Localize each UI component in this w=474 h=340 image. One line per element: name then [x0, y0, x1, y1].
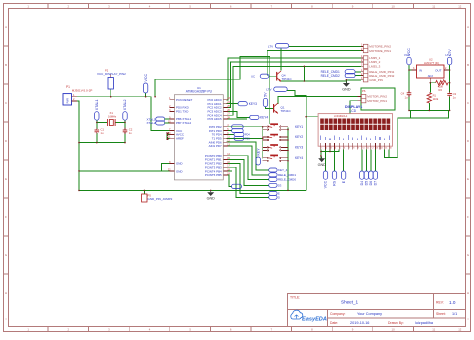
svg-text:B: B [5, 63, 7, 67]
svg-text:G: G [5, 253, 7, 257]
svg-text:D4: D4 [360, 181, 364, 186]
svg-text:10: 10 [392, 328, 396, 332]
svg-text:RELE_CMD0: RELE_CMD0 [278, 178, 296, 182]
svg-text:PCINT5 PB5: PCINT5 PB5 [205, 173, 222, 177]
svg-text:RS: RS [333, 180, 337, 186]
svg-text:P6: P6 [362, 89, 366, 93]
svg-text:GND_PIN_JUMP2: GND_PIN_JUMP2 [148, 197, 173, 201]
svg-text:RELE_CMD1: RELE_CMD1 [278, 173, 296, 177]
svg-text:KEY2: KEY2 [295, 135, 303, 139]
svg-text:5V: 5V [264, 92, 268, 97]
svg-text:XTAL2: XTAL2 [123, 99, 127, 110]
svg-text:LCD1602A-4: LCD1602A-4 [334, 115, 348, 118]
svg-text:IN: IN [419, 69, 422, 73]
svg-text:GND: GND [176, 162, 183, 166]
svg-text:11: 11 [432, 328, 435, 332]
svg-text:ADJ: ADJ [428, 74, 434, 78]
svg-text:10: 10 [392, 4, 396, 8]
svg-text:16: 16 [390, 148, 392, 150]
svg-text:H: H [5, 291, 7, 295]
svg-text:D: D [278, 196, 280, 200]
svg-text:1/1: 1/1 [452, 312, 457, 316]
svg-text:2019-10-16: 2019-10-16 [350, 321, 369, 325]
svg-text:VCC: VCC [404, 53, 411, 57]
svg-text:15: 15 [385, 148, 387, 150]
svg-text:KEY: KEY [256, 148, 260, 156]
svg-text:PB7 XTAL2: PB7 XTAL2 [176, 121, 191, 125]
svg-text:5: 5 [340, 148, 341, 150]
svg-text:XTAL2: XTAL2 [147, 121, 156, 125]
svg-text:KEY_4: KEY_4 [278, 168, 288, 172]
svg-text:TIP41C: TIP41C [281, 109, 292, 113]
svg-text:12: 12 [371, 148, 373, 150]
svg-text:RELE_CMD2: RELE_CMD2 [321, 74, 340, 78]
svg-text:KEY4: KEY4 [295, 156, 303, 160]
svg-text:P1: P1 [66, 85, 70, 89]
svg-text:D5: D5 [365, 181, 369, 186]
svg-text:PD1 TXD: PD1 TXD [176, 110, 188, 114]
svg-text:E: E [5, 177, 7, 181]
svg-text:KEY1: KEY1 [295, 125, 303, 129]
svg-text:3: 3 [331, 148, 332, 150]
svg-text:14: 14 [381, 148, 383, 150]
svg-text:LTV: LTV [445, 53, 450, 57]
svg-text:PD4: PD4 [245, 134, 250, 137]
svg-text:10: 10 [362, 148, 364, 150]
svg-text:6: 6 [344, 148, 345, 150]
svg-text:16MHz: 16MHz [108, 114, 117, 118]
svg-text:GND: GND [207, 197, 216, 201]
svg-text:MOTORE_PIN1: MOTORE_PIN1 [369, 49, 391, 53]
svg-text:Your Company: Your Company [357, 312, 382, 316]
svg-text:REV:: REV: [436, 301, 444, 305]
svg-text:D7: D7 [374, 181, 378, 186]
svg-text:ATMEGA328P-PU: ATMEGA328P-PU [186, 90, 213, 94]
svg-text:110k: 110k [433, 97, 439, 101]
svg-text:VCC: VCC [144, 74, 148, 82]
svg-text:KEY4: KEY4 [260, 116, 268, 120]
svg-text:Date:: Date: [330, 321, 338, 325]
svg-text:LTV: LTV [268, 45, 273, 49]
svg-text:8: 8 [353, 148, 354, 150]
svg-text:PC5 ADC5: PC5 ADC5 [207, 117, 222, 121]
svg-text:4: 4 [335, 148, 336, 150]
svg-text:13: 13 [376, 148, 378, 150]
svg-text:VCC_DISPLAY_PIN2: VCC_DISPLAY_PIN2 [97, 72, 126, 76]
svg-text:Drawn By:: Drawn By: [388, 321, 404, 325]
svg-text:PWR: PWR [67, 98, 70, 104]
svg-text:A: A [5, 25, 7, 29]
svg-text:XTAL1: XTAL1 [95, 99, 99, 110]
svg-text:1u: 1u [453, 96, 456, 100]
svg-text:1.0: 1.0 [449, 300, 456, 305]
svg-text:F: F [5, 215, 7, 219]
svg-text:A: A [467, 25, 469, 29]
svg-text:luizpadilha: luizpadilha [415, 321, 434, 325]
svg-text:C: C [467, 101, 469, 105]
svg-text:R1: R1 [433, 94, 437, 98]
svg-text:GND_PIN: GND_PIN [369, 78, 383, 82]
svg-text:Sheet_1: Sheet_1 [341, 300, 359, 305]
svg-text:GND: GND [318, 163, 327, 167]
svg-text:2: 2 [326, 148, 327, 150]
svg-text:TITLE:: TITLE: [290, 296, 300, 300]
svg-text:VCC: VCC [324, 180, 328, 188]
svg-text:KEY3: KEY3 [249, 102, 257, 106]
svg-text:G: G [467, 253, 469, 257]
svg-text:D6: D6 [369, 181, 373, 186]
svg-text:LTV: LTV [266, 88, 271, 92]
svg-text:D: D [5, 139, 7, 143]
svg-text:12: 12 [458, 4, 462, 8]
svg-text:PC6 RESET: PC6 RESET [176, 98, 193, 102]
svg-text:Sheet:: Sheet: [436, 312, 446, 316]
svg-text:B: B [467, 63, 469, 67]
svg-text:TIP41C: TIP41C [282, 77, 293, 81]
svg-text:KEY3: KEY3 [295, 146, 303, 150]
svg-text:MJ301V-5.0-2P: MJ301V-5.0-2P [72, 88, 93, 92]
svg-text:Company:: Company: [330, 312, 346, 316]
svg-text:D: D [467, 139, 469, 143]
svg-text:9: 9 [358, 148, 359, 150]
svg-text:LCD: LCD [350, 109, 357, 113]
svg-text:C4: C4 [401, 92, 405, 96]
svg-text:E: E [467, 177, 469, 181]
svg-text:1: 1 [321, 148, 322, 150]
svg-text:LM317T (D): LM317T (D) [424, 61, 439, 65]
svg-text:11: 11 [432, 4, 435, 8]
svg-text:1u: 1u [405, 96, 408, 100]
svg-text:12: 12 [458, 328, 462, 332]
svg-text:F: F [467, 215, 469, 219]
svg-text:OUT: OUT [435, 69, 442, 73]
svg-text:MOTOR_PIN1: MOTOR_PIN1 [367, 99, 387, 103]
svg-text:E: E [278, 192, 280, 196]
svg-text:AIN1 PD7: AIN1 PD7 [209, 144, 222, 148]
svg-text:LM35_3: LM35_3 [369, 65, 380, 69]
svg-text:PD5: PD5 [245, 137, 250, 140]
svg-text:7: 7 [349, 148, 350, 150]
svg-text:11: 11 [367, 148, 369, 150]
svg-text:C: C [5, 101, 7, 105]
svg-text:C3: C3 [453, 92, 457, 96]
svg-text:GND: GND [176, 169, 183, 173]
svg-text:AREF: AREF [176, 136, 184, 140]
svg-text:P2: P2 [105, 69, 109, 73]
svg-text:EasyEDA: EasyEDA [302, 316, 327, 322]
svg-text:UC: UC [251, 74, 255, 78]
svg-text:R2: R2 [439, 88, 443, 92]
svg-text:D3: D3 [278, 184, 282, 188]
svg-text:H: H [467, 291, 469, 295]
svg-text:GND: GND [342, 88, 351, 92]
